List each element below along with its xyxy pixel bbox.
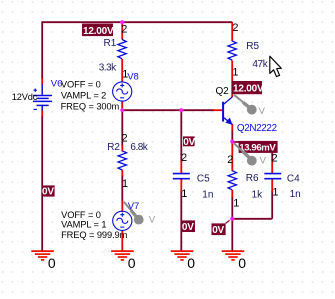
wire R2 column upper	[121, 110, 123, 146]
wire C4 column upper	[271, 141, 273, 161]
svg-text:1: 1	[122, 68, 128, 80]
wire R2 column lower	[121, 175, 123, 202]
resistor R1 zigzag	[118, 40, 126, 59]
sine source V7 circle	[113, 211, 132, 230]
pin lead C4 top	[271, 161, 273, 174]
svg-text:2: 2	[232, 22, 238, 34]
ground 0 under C5	[171, 251, 194, 260]
pin lead V7 bottom to ground	[121, 230, 123, 251]
junction node C5 tap on base net	[179, 108, 183, 112]
svg-text:VOFF = 0: VOFF = 0	[61, 210, 101, 220]
svg-text:1n: 1n	[202, 190, 213, 201]
bias label 0V at R6 bottom with leader	[212, 220, 230, 236]
svg-text:0: 0	[128, 255, 136, 271]
wire R6 node to ground	[231, 219, 233, 251]
resistor R5 zigzag	[228, 41, 236, 60]
bias label 12.00V at top bus	[82, 24, 114, 37]
svg-text:0V: 0V	[212, 225, 224, 236]
pin lead R5 top	[231, 22, 233, 41]
wire top bus from V6 to R5 column	[42, 21, 232, 23]
svg-text:V: V	[259, 106, 266, 117]
svg-text:0V: 0V	[183, 137, 195, 148]
bias label 0V at base net	[183, 136, 196, 148]
svg-text:Q2N2222: Q2N2222	[237, 123, 277, 134]
svg-text:2: 2	[122, 133, 128, 145]
svg-text:R2: R2	[107, 142, 120, 153]
svg-text:VOFF = 0: VOFF = 0	[61, 80, 101, 90]
svg-text:V: V	[260, 156, 267, 167]
pin lead V6 top	[41, 78, 43, 85]
svg-text:0V: 0V	[182, 222, 194, 233]
wire mid horizontal base net	[122, 109, 214, 111]
battery V6 symbol	[33, 85, 52, 111]
resistor R6 zigzag	[228, 171, 236, 190]
pin lead C5 top	[180, 161, 182, 174]
pin lead V8 bottom	[121, 101, 123, 111]
ground 0 under V7	[111, 251, 134, 260]
svg-text:R1: R1	[104, 38, 117, 49]
svg-text:2: 2	[227, 154, 233, 166]
svg-text:1: 1	[232, 67, 238, 79]
svg-text:1k: 1k	[252, 189, 264, 200]
svg-text:6.8k: 6.8k	[130, 142, 148, 153]
svg-text:2: 2	[121, 24, 127, 36]
svg-text:1: 1	[233, 197, 239, 209]
svg-text:R5: R5	[246, 41, 259, 52]
pin lead V7 top	[121, 201, 123, 213]
svg-text:0V: 0V	[42, 187, 54, 198]
svg-text:2: 2	[272, 153, 278, 165]
pin lead R1 top	[121, 22, 123, 40]
transistor Q2 emitter arrowhead	[225, 118, 232, 125]
svg-text:C4: C4	[287, 173, 300, 184]
svg-text:47k: 47k	[252, 59, 268, 70]
pin lead R2 bottom	[121, 170, 123, 176]
wire emitter to junction	[231, 130, 233, 143]
svg-text:12.00V: 12.00V	[83, 26, 114, 37]
svg-text:V: V	[149, 214, 156, 225]
voltage probe on V7 node	[124, 202, 156, 226]
svg-text:R6: R6	[246, 173, 259, 184]
svg-text:FREQ = 999.9m: FREQ = 999.9m	[61, 230, 127, 240]
svg-text:1: 1	[272, 187, 278, 199]
bias label 0V at C5 bottom	[181, 220, 195, 233]
svg-text:12.00V: 12.00V	[233, 84, 264, 95]
voltage probe on collector node	[234, 95, 266, 117]
bias label 0V at V6 column	[42, 185, 55, 197]
svg-text:12Vdc: 12Vdc	[12, 92, 38, 102]
svg-text:0: 0	[238, 255, 246, 271]
pin lead R1 bottom to V8	[121, 59, 123, 83]
ground 0 under R6	[222, 251, 245, 260]
bias label 12.00V at collector	[232, 81, 264, 95]
ground 0 under V6	[31, 251, 54, 260]
pin lead Q2 emitter	[231, 124, 233, 131]
junction node R6/C4 bottom net	[230, 217, 234, 221]
pin lead R6 bottom	[231, 190, 233, 198]
svg-text:2: 2	[181, 152, 187, 164]
svg-text:VAMPL = 1: VAMPL = 1	[61, 220, 106, 230]
junction node V8 bottom base net	[120, 108, 124, 112]
capacitor C5 plates	[173, 174, 190, 179]
svg-text:V8: V8	[127, 72, 139, 83]
svg-text:VAMPL = 2: VAMPL = 2	[61, 90, 106, 100]
pin lead V6 bottom	[41, 110, 43, 117]
svg-text:0: 0	[187, 255, 195, 271]
svg-text:3.3k: 3.3k	[99, 63, 117, 74]
pin lead C5 bottom	[180, 180, 182, 193]
wire C5 column upper	[180, 110, 182, 161]
svg-text:V7: V7	[128, 201, 140, 212]
wire bottom-right horizontal C4 to R6 node	[232, 218, 272, 220]
pin lead Q2 base	[213, 109, 223, 111]
pin lead R6 top	[231, 142, 233, 171]
wire R6 bottom to junction	[231, 197, 233, 219]
wire C5 column lower to ground	[180, 191, 182, 251]
transistor Q2 emitter stroke	[223, 117, 232, 124]
resistor R2 zigzag	[118, 151, 126, 170]
junction node emitter net	[230, 140, 234, 144]
svg-text:FREQ = 300m: FREQ = 300m	[61, 102, 120, 112]
svg-text:1: 1	[122, 178, 128, 190]
transistor Q2 base bar	[222, 102, 224, 122]
pin lead R2 top	[121, 145, 123, 152]
capacitor C4 plates	[264, 174, 281, 179]
sine source V8 circle	[113, 82, 132, 101]
svg-text:0: 0	[48, 255, 56, 271]
wire left column V6 battery top	[41, 21, 43, 79]
pin lead R5 bottom to Q2 collector	[231, 61, 233, 98]
junction node at R1 top bus	[120, 20, 124, 24]
pin lead C4 bottom	[271, 180, 273, 193]
mouse cursor	[270, 56, 282, 76]
svg-text:1: 1	[181, 188, 187, 200]
svg-text:C5: C5	[197, 173, 210, 184]
wire C4 column lower	[271, 191, 273, 219]
voltage probe on emitter node	[234, 143, 267, 166]
transistor Q2 collector stroke	[223, 97, 232, 105]
wire left column V6 battery bottom to ground	[41, 116, 43, 252]
svg-text:Q2: Q2	[216, 86, 230, 97]
svg-text:1n: 1n	[290, 189, 301, 200]
wire emitter node horizontal to C4	[232, 141, 272, 143]
bias label 13.96mV at emitter	[239, 141, 278, 154]
